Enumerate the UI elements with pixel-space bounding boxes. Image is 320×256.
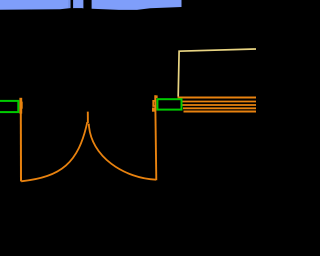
left hinge bump bbox=[19, 102, 22, 109]
right door hinge bracket bbox=[153, 101, 155, 106]
right wall hatch line 4 bbox=[183, 107, 256, 109]
left door panel bbox=[20, 113, 22, 181]
wall edge gap 1 bbox=[71, 0, 74, 11]
right wall hatch line 5 bbox=[184, 111, 257, 113]
right door jamb (green) bbox=[157, 99, 181, 109]
left door jamb (green) bbox=[0, 101, 18, 112]
left door swing arc bbox=[21, 122, 87, 181]
right door hinge tick bbox=[155, 95, 158, 98]
right hinge bottom bump bbox=[152, 108, 155, 112]
upper wall outline (yellow) bbox=[178, 49, 256, 97]
middle block shading bbox=[73, 8, 82, 10]
right wall hatch line 1 bbox=[178, 97, 257, 99]
sky strip (3D view slice) bbox=[0, 0, 182, 10]
left door hinge post bbox=[19, 98, 22, 114]
right wall hatch line 2 bbox=[182, 101, 256, 103]
wall corner seam bbox=[69, 0, 70, 8]
right door panel bbox=[155, 95, 156, 180]
right door swing arc bbox=[89, 124, 156, 180]
wall edge gap 2 bbox=[83, 0, 91, 11]
right wall hatch line 3 bbox=[182, 104, 256, 106]
door meeting stub bbox=[87, 112, 89, 123]
